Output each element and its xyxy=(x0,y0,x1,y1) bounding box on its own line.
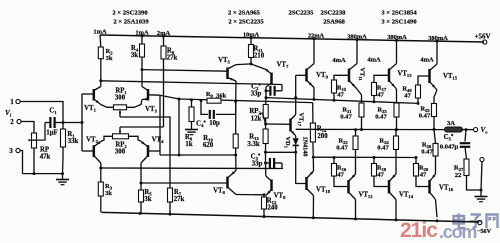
svg-text:1N4148: 1N4148 xyxy=(302,137,309,157)
lower feedback line xyxy=(160,154,236,156)
input terminal 2 xyxy=(17,119,21,123)
top rail junction x=357 xyxy=(356,38,359,41)
svg-text:VD1: VD1 xyxy=(283,137,291,149)
svg-text:3 × 2SC1490: 3 × 2SC1490 xyxy=(381,19,417,26)
C2 right riser to base line xyxy=(281,85,283,91)
VT6 collector riser xyxy=(235,155,237,171)
svg-text:RP3: RP3 xyxy=(249,108,261,116)
bottom rail junction x=170 xyxy=(169,213,172,216)
wire R2 to VT1 collector xyxy=(100,59,102,81)
bottom -56V rail xyxy=(102,212,480,222)
svg-text:210: 210 xyxy=(254,53,265,60)
ground (R8) xyxy=(191,127,193,130)
RP2 to VT4 emitter xyxy=(129,136,142,141)
wire terminal1 to C1 node xyxy=(20,102,63,123)
RP3 wiper to base node xyxy=(262,113,265,125)
-56V terminal xyxy=(478,221,482,225)
node C2 left xyxy=(265,89,268,92)
transistor VT6 (PNP) xyxy=(226,177,229,189)
capacitor C4 10p xyxy=(209,110,211,119)
node busT / VT17 collector / VT9 base riser xyxy=(294,96,297,99)
potentiometer RP1 300 xyxy=(114,105,127,110)
R4 3k xyxy=(141,36,143,44)
output bus xyxy=(296,128,445,130)
svg-text:4mA: 4mA xyxy=(332,57,346,64)
RP1 wiper to R7 xyxy=(120,117,170,188)
svg-text:300: 300 xyxy=(115,95,126,102)
svg-text:2SC2238: 2SC2238 xyxy=(321,10,347,17)
top driver bus (busT) xyxy=(266,98,418,104)
node R20 top (busB right end) xyxy=(415,156,418,159)
VT7 collector riser xyxy=(265,87,267,98)
resistor R26 0.47 xyxy=(435,156,437,174)
VT7 emitter to R11 node xyxy=(251,64,266,70)
node R15 bottom on busT xyxy=(333,99,336,102)
transistor VT5 xyxy=(226,68,229,80)
svg-text:12k: 12k xyxy=(251,116,262,123)
VT10 emitter to busB xyxy=(312,157,314,171)
svg-text:0.47: 0.47 xyxy=(377,145,389,152)
transistor VT14 (PNP) xyxy=(388,180,391,194)
resistor R21 0.47 xyxy=(357,89,362,103)
svg-text:1μF: 1μF xyxy=(46,130,57,137)
svg-text:Vi: Vi xyxy=(5,109,12,118)
resistor R23 0.47 xyxy=(396,89,398,103)
resistor R24 0.47 xyxy=(395,150,397,175)
node base trunk xyxy=(81,121,84,124)
node feedback/R8 xyxy=(178,98,181,101)
transistor VT13 xyxy=(388,69,391,83)
RP1 to VT3 emitter xyxy=(127,100,143,108)
fuse 3A xyxy=(445,127,463,132)
node R24 on output bus xyxy=(395,128,398,131)
VT13 collector to rail xyxy=(396,40,398,63)
svg-text:240: 240 xyxy=(267,205,278,212)
bottom rail junction x=396 xyxy=(395,218,398,221)
VT17 collector riser xyxy=(295,98,297,115)
diode VD1 1N4148 xyxy=(295,136,297,138)
top rail junction x=251 xyxy=(250,36,253,39)
ground (output) xyxy=(480,190,482,197)
VT16 collector to rail xyxy=(436,200,438,218)
svg-text:47: 47 xyxy=(420,172,427,179)
bottom rail junction x=355.5 xyxy=(354,217,357,220)
transistor VT16 (PNP) xyxy=(428,180,431,194)
feedback riser xyxy=(178,99,180,155)
top +56V rail xyxy=(100,35,484,42)
svg-text:0.047μ: 0.047μ xyxy=(440,144,459,151)
transistor VT10 (PNP) xyxy=(305,177,308,190)
svg-text:300: 300 xyxy=(115,149,126,156)
resistor R12 240 xyxy=(262,197,267,209)
potentiometer RP3 12k xyxy=(263,105,268,119)
input terminal 3 xyxy=(16,148,20,152)
top rail junction x=142 xyxy=(141,34,144,37)
VT9 base wire xyxy=(296,74,307,76)
potentiometer RP2 300 xyxy=(113,134,129,139)
node R16 top on busB xyxy=(333,156,336,159)
wire VT3 collector to VT5 base xyxy=(142,70,228,72)
bottom rail junction x=313.3 xyxy=(312,216,315,219)
VT6 emitter to R12 xyxy=(236,194,264,196)
VT4 base wire to trunk xyxy=(148,150,160,152)
capacitor C2 33p xyxy=(269,86,271,96)
svg-text:VT1: VT1 xyxy=(84,105,96,113)
svg-text:3 × 2SC3854: 3 × 2SC3854 xyxy=(381,10,417,17)
transistor VT3 xyxy=(147,89,150,101)
resistor R27 22 xyxy=(464,159,469,176)
node VAS- left / R13 bottom xyxy=(264,151,267,154)
svg-text:0.47: 0.47 xyxy=(375,114,387,121)
svg-text:380mA: 380mA xyxy=(428,35,448,42)
node C1/R1/terminal1 xyxy=(62,121,65,124)
svg-text:22mA: 22mA xyxy=(308,33,325,40)
VT1 emitter to RP1 xyxy=(101,105,114,108)
resistor R13 3.3k xyxy=(263,129,268,144)
svg-text:4mA: 4mA xyxy=(367,57,381,64)
wire VT2 collector to VT8 base line xyxy=(101,167,283,170)
C3 right riser to VT8 base line xyxy=(281,163,283,169)
top rail junction x=437 xyxy=(436,40,439,43)
svg-text:380mA: 380mA xyxy=(387,34,407,41)
svg-text:47k: 47k xyxy=(40,154,51,161)
watermark dianziwang (drawn glyphs) xyxy=(454,214,466,229)
node busB left / R14 bottom / VT10 emitter xyxy=(312,156,315,159)
node R19 bottom (busT right end) xyxy=(417,102,420,105)
node R25/R26 on output bus xyxy=(433,128,436,131)
wire trunk tee to feedback node xyxy=(160,95,179,99)
R18 bottom to VT14 base xyxy=(374,176,389,187)
svg-text:21ic: 21ic xyxy=(400,219,438,238)
node R22 on output bus xyxy=(354,128,357,131)
svg-text:VT10: VT10 xyxy=(316,187,331,195)
+56V terminal xyxy=(483,40,487,44)
svg-text:VT16: VT16 xyxy=(439,185,454,193)
wire R4 to VT3 collector xyxy=(141,57,143,70)
feedback bus (R9 line) xyxy=(179,99,313,103)
R17 top to VT13 base xyxy=(374,75,389,82)
svg-text:47: 47 xyxy=(337,172,344,179)
svg-text:3: 3 xyxy=(9,147,13,155)
svg-text:33p: 33p xyxy=(251,91,262,98)
input ground line xyxy=(23,173,63,175)
svg-text:2 × 2SC2390: 2 × 2SC2390 xyxy=(112,10,148,17)
svg-text:VT15: VT15 xyxy=(443,73,458,81)
svg-text:27k: 27k xyxy=(167,55,178,62)
resistor R10 620 xyxy=(233,134,238,148)
node R8 top xyxy=(190,98,193,101)
svg-text:C4*: C4* xyxy=(196,121,206,129)
svg-text:VT5: VT5 xyxy=(218,57,230,65)
Vo terminal xyxy=(474,128,478,132)
svg-text:4mA: 4mA xyxy=(420,57,434,64)
VT9 base riser xyxy=(295,75,297,97)
svg-text:VT11: VT11 xyxy=(358,68,366,82)
wire R1 to ground line xyxy=(62,157,65,174)
wire terminal2 to RP xyxy=(21,122,34,134)
VT2 collector wire xyxy=(100,163,102,168)
RP2 wiper to R6 xyxy=(120,126,164,128)
wire C1 node to base trunk xyxy=(63,122,82,124)
node R18 top on busB xyxy=(373,156,376,159)
VT8 collector riser xyxy=(265,163,267,176)
svg-text:RP: RP xyxy=(40,147,49,154)
VT9 collector to rail xyxy=(313,39,315,64)
RP1 wiper xyxy=(119,110,122,113)
node R23 on output bus xyxy=(395,128,398,131)
transistor VT8 xyxy=(270,180,273,192)
svg-text:+56V: +56V xyxy=(474,32,490,40)
svg-text:C1: C1 xyxy=(49,108,57,116)
resistor R14 200 xyxy=(312,103,314,123)
resistor R5 3k xyxy=(139,190,144,202)
transistor VT9 xyxy=(305,69,308,82)
resistor R4 3k xyxy=(140,44,145,57)
bottom driver bus (busB) xyxy=(313,156,416,158)
svg-text:VT4: VT4 xyxy=(152,137,164,145)
R15 top to VT11 base xyxy=(334,75,349,80)
capacitor C5 0.047u xyxy=(465,128,468,131)
resistor R9 36k (in feedback bus) xyxy=(207,98,221,103)
VT2 base wire xyxy=(82,150,93,152)
transistor VT7 (PNP) xyxy=(270,73,273,85)
svg-text:2 × 2SA965: 2 × 2SA965 xyxy=(228,10,261,17)
input terminal 1 xyxy=(16,99,20,103)
transistor VT4 (PNP) xyxy=(147,145,150,157)
svg-text:VT8: VT8 xyxy=(274,193,286,201)
node busT left / RP3 / VT7 collector xyxy=(265,96,268,99)
node VT17 base xyxy=(264,123,267,126)
svg-text:1k: 1k xyxy=(185,141,192,148)
svg-text:1: 1 xyxy=(10,98,14,106)
svg-text:33p: 33p xyxy=(252,161,263,168)
svg-text:47: 47 xyxy=(377,92,384,99)
svg-text:2SC2235: 2SC2235 xyxy=(289,10,315,17)
svg-text:2mA: 2mA xyxy=(157,30,171,37)
node C4 right / R10 / VT5 emitter xyxy=(234,100,237,103)
svg-text:380mA: 380mA xyxy=(347,33,367,40)
transistor VT2 (PNP) xyxy=(93,145,96,157)
VT12 collector to rail xyxy=(355,200,357,219)
transistor VT17 (bias) xyxy=(289,119,292,132)
node R17 bottom on busT xyxy=(373,100,376,103)
VT1 base wire xyxy=(82,93,93,95)
svg-text:R13: R13 xyxy=(249,134,259,142)
resistor R22 0.47 xyxy=(355,150,357,175)
node VT4 collector / R5 xyxy=(140,182,143,185)
wire R27 to ground xyxy=(467,176,482,191)
svg-text:3A: 3A xyxy=(447,120,455,127)
left column R2 3k xyxy=(99,35,102,47)
node VT1 collector xyxy=(99,79,102,82)
node C3 left xyxy=(264,162,267,165)
resistor R2 3k xyxy=(98,47,103,59)
node VT2 collector / R3 xyxy=(99,167,102,170)
svg-text:−56V: −56V xyxy=(477,228,492,235)
svg-text:47: 47 xyxy=(404,93,411,100)
node VAS- right / VD1 cathode xyxy=(294,151,297,154)
svg-text:10mA: 10mA xyxy=(243,31,260,38)
svg-text:C5*: C5* xyxy=(444,134,454,142)
svg-text:3k: 3k xyxy=(144,196,151,203)
svg-text:VT7: VT7 xyxy=(277,62,289,70)
svg-text:0.47: 0.47 xyxy=(421,149,433,156)
svg-text:0.47: 0.47 xyxy=(419,113,431,120)
svg-text:620: 620 xyxy=(203,142,214,149)
svg-text:22: 22 xyxy=(455,172,462,179)
svg-text:3k: 3k xyxy=(131,52,138,59)
svg-text:VT9: VT9 xyxy=(316,72,328,80)
bottom rail junction x=437 xyxy=(436,219,439,222)
wire C5 to R27 xyxy=(465,147,467,159)
node C4 left xyxy=(200,99,203,102)
wire R6 down to RP2 wiper line xyxy=(163,59,165,127)
svg-text:2SA968: 2SA968 xyxy=(323,19,345,26)
svg-text:1mA: 1mA xyxy=(93,29,107,36)
svg-text:3k: 3k xyxy=(105,190,112,197)
node VT6/VT8 emitters xyxy=(263,193,266,196)
svg-text:0.47: 0.47 xyxy=(340,114,352,121)
svg-text:3.3k: 3.3k xyxy=(247,141,259,148)
svg-text:27k: 27k xyxy=(174,196,185,203)
svg-text:VT14: VT14 xyxy=(399,192,414,200)
top rail junction x=396.5 xyxy=(395,39,398,42)
VAS- line xyxy=(266,151,296,153)
R6 27k xyxy=(163,36,165,46)
svg-text:1mA: 1mA xyxy=(135,29,149,36)
svg-text:47: 47 xyxy=(377,172,384,179)
RP2 wiper xyxy=(119,131,122,134)
capacitor C1 1uF xyxy=(49,117,51,128)
output terminal 2 xyxy=(480,157,484,161)
svg-text:VT13: VT13 xyxy=(397,71,412,79)
VT14 collector to rail xyxy=(395,200,397,220)
wire terminal3 down xyxy=(20,151,22,174)
R19 top to VT15 base xyxy=(418,76,430,85)
svg-text:2 × 2SA1039: 2 × 2SA1039 xyxy=(113,19,149,26)
potentiometer RP 47k xyxy=(32,133,37,148)
VT5 collector to R11 xyxy=(236,63,251,66)
VT4 collector wire xyxy=(140,163,142,183)
svg-text:Vo: Vo xyxy=(480,126,488,135)
wire RP bottom to input ground line xyxy=(33,148,35,174)
wire VT4 collector to VT6 base xyxy=(141,182,228,184)
svg-text:VT12: VT12 xyxy=(358,192,373,200)
svg-text:0.47: 0.47 xyxy=(336,145,348,152)
svg-text:VT2: VT2 xyxy=(86,137,98,145)
VT11 collector to rail xyxy=(356,40,358,64)
svg-text:VT3: VT3 xyxy=(145,106,157,114)
transistor VT12 (PNP) xyxy=(347,180,350,194)
resistor R8 1k xyxy=(189,107,194,122)
svg-text:3k: 3k xyxy=(106,55,113,62)
resistor R7 27k xyxy=(168,188,173,202)
node R21 on output bus xyxy=(360,128,363,131)
riser to VT10 base xyxy=(296,152,307,183)
VT3 base wire to trunk xyxy=(148,94,160,96)
svg-text:2: 2 xyxy=(10,118,14,126)
R16 bottom to VT12 base xyxy=(334,176,349,187)
top rail junction x=314 xyxy=(313,37,316,40)
RP wiper wire xyxy=(32,123,46,141)
bottom rail junction x=264 xyxy=(263,215,266,218)
node R11 / VT5 collector / VT7 emitter xyxy=(250,62,253,65)
resistor R11 210 xyxy=(250,38,252,45)
VT17 base wire xyxy=(266,123,291,125)
top rail junction x=163.5 xyxy=(162,35,165,38)
wire fuse to Vo terminal xyxy=(463,129,474,131)
transistor VT15 xyxy=(428,69,431,83)
svg-text:VT6: VT6 xyxy=(213,188,225,196)
VT1/VT2 base trunk xyxy=(81,94,83,151)
bottom rail junction x=140 xyxy=(139,212,142,215)
svg-text:10p: 10p xyxy=(209,120,220,127)
VT5 emitter riser xyxy=(235,81,237,101)
node VT9 emitter on busT xyxy=(312,98,315,101)
svg-text:47: 47 xyxy=(337,92,344,99)
wire terminal to ground xyxy=(481,162,482,190)
wire R13 node to C3 node xyxy=(265,152,267,163)
R20 bottom to VT16 base xyxy=(416,176,430,187)
svg-text:33k: 33k xyxy=(68,138,79,145)
transistor VT1 xyxy=(93,89,96,101)
transistor VT11 xyxy=(348,69,351,83)
VT9 emitter to busT xyxy=(313,88,315,100)
resistor R6 27k xyxy=(161,46,166,59)
node R10 bottom / VT6 collector xyxy=(234,154,237,157)
svg-text:2 × 2SC2235: 2 × 2SC2235 xyxy=(228,19,264,26)
svg-text:VT17: VT17 xyxy=(297,113,305,127)
resistor R25 0.47 xyxy=(434,90,437,104)
resistor R1 33k xyxy=(61,129,66,147)
VT10 collector to rail xyxy=(312,196,314,218)
svg-text:R27: R27 xyxy=(454,165,464,173)
wire VT1 collector to VT7 base line xyxy=(101,81,282,85)
ground (input) xyxy=(62,174,64,180)
VT15 collector to rail xyxy=(436,41,438,64)
node VT3 collector xyxy=(141,68,144,71)
VT3/VT4 base trunk + feedback tee xyxy=(159,95,161,155)
svg-text:200: 200 xyxy=(317,133,328,140)
VT2 emitter to RP2 xyxy=(101,136,113,141)
resistor R3 3k xyxy=(98,182,103,196)
